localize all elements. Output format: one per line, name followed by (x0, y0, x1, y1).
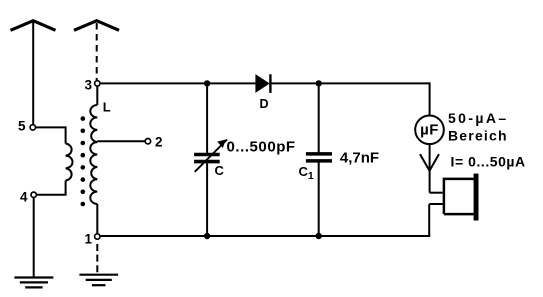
junction (bottom rail / C1 branch) (316, 233, 322, 239)
wire node3 to coil L top (96, 87, 98, 105)
svg-text:C: C (215, 163, 225, 178)
capacitor C1 (299, 154, 333, 182)
svg-text:1: 1 (84, 232, 92, 247)
node 3 (95, 81, 100, 86)
svg-text:µF: µF (420, 122, 439, 139)
node 4 (31, 192, 36, 197)
svg-text:0...500pF: 0...500pF (227, 139, 296, 156)
wire antenna1 to node 5 (32, 23, 34, 125)
earphone (piezo) (429, 174, 478, 236)
node 2 (145, 139, 150, 144)
current direction arrow (420, 154, 439, 171)
wire (dashed) node 1 to chassis ground (96, 244, 98, 275)
svg-text:4: 4 (20, 189, 28, 204)
junction (bottom rail / C branch) (204, 233, 210, 239)
capacitor C (variable) (194, 140, 227, 179)
wire node5 to primary coil top (36, 127, 66, 143)
wire C branch (lower) (206, 163, 208, 236)
wire C branch (upper) (206, 83, 208, 153)
svg-text:2: 2 (155, 135, 163, 150)
wire tap to node 2 (97, 140, 144, 142)
diode D (255, 74, 270, 111)
svg-text:Bereich: Bereich (448, 127, 508, 143)
coil primary (left winding) (66, 144, 73, 181)
wire bottom rail (101, 235, 431, 237)
svg-text:I= 0...50µA: I= 0...50µA (451, 153, 526, 169)
junction (top rail / C1 branch) (316, 80, 322, 86)
wire node 4 to ground (33, 198, 35, 278)
svg-text:D: D (260, 97, 269, 111)
svg-text:3: 3 (84, 77, 92, 92)
svg-text:50-µA–: 50-µA– (448, 110, 509, 126)
meter M1 (µF) (415, 116, 444, 145)
wire meter to earphone, with current arrow (429, 144, 431, 193)
node 5 (30, 125, 35, 130)
wire top-right corner down to meter (429, 82, 431, 115)
coil L (secondary winding, 8 humps) (90, 105, 97, 204)
svg-text:L: L (103, 100, 111, 115)
wire C1 branch (lower) (318, 162, 320, 236)
svg-text:4,7nF: 4,7nF (340, 149, 379, 166)
wire coil bottom to node 4 (37, 181, 66, 195)
antenna ANT1 (left) (11, 21, 56, 31)
ground (left) (14, 278, 53, 288)
node 1 (95, 234, 100, 239)
wire coil L bottom to node 1 (96, 204, 98, 233)
ground (chassis, below node 1) (79, 275, 118, 286)
svg-text:5: 5 (18, 118, 26, 133)
wire C1 branch (upper) (318, 83, 320, 152)
core dots (81, 116, 86, 206)
wire (dashed) antenna2 to node 3 (96, 23, 98, 80)
wire top rail: node3 - junction - diode - junction - right corner (101, 82, 256, 84)
junction (top rail / C branch) (204, 80, 210, 86)
antenna ANT2 (right) (74, 21, 119, 31)
